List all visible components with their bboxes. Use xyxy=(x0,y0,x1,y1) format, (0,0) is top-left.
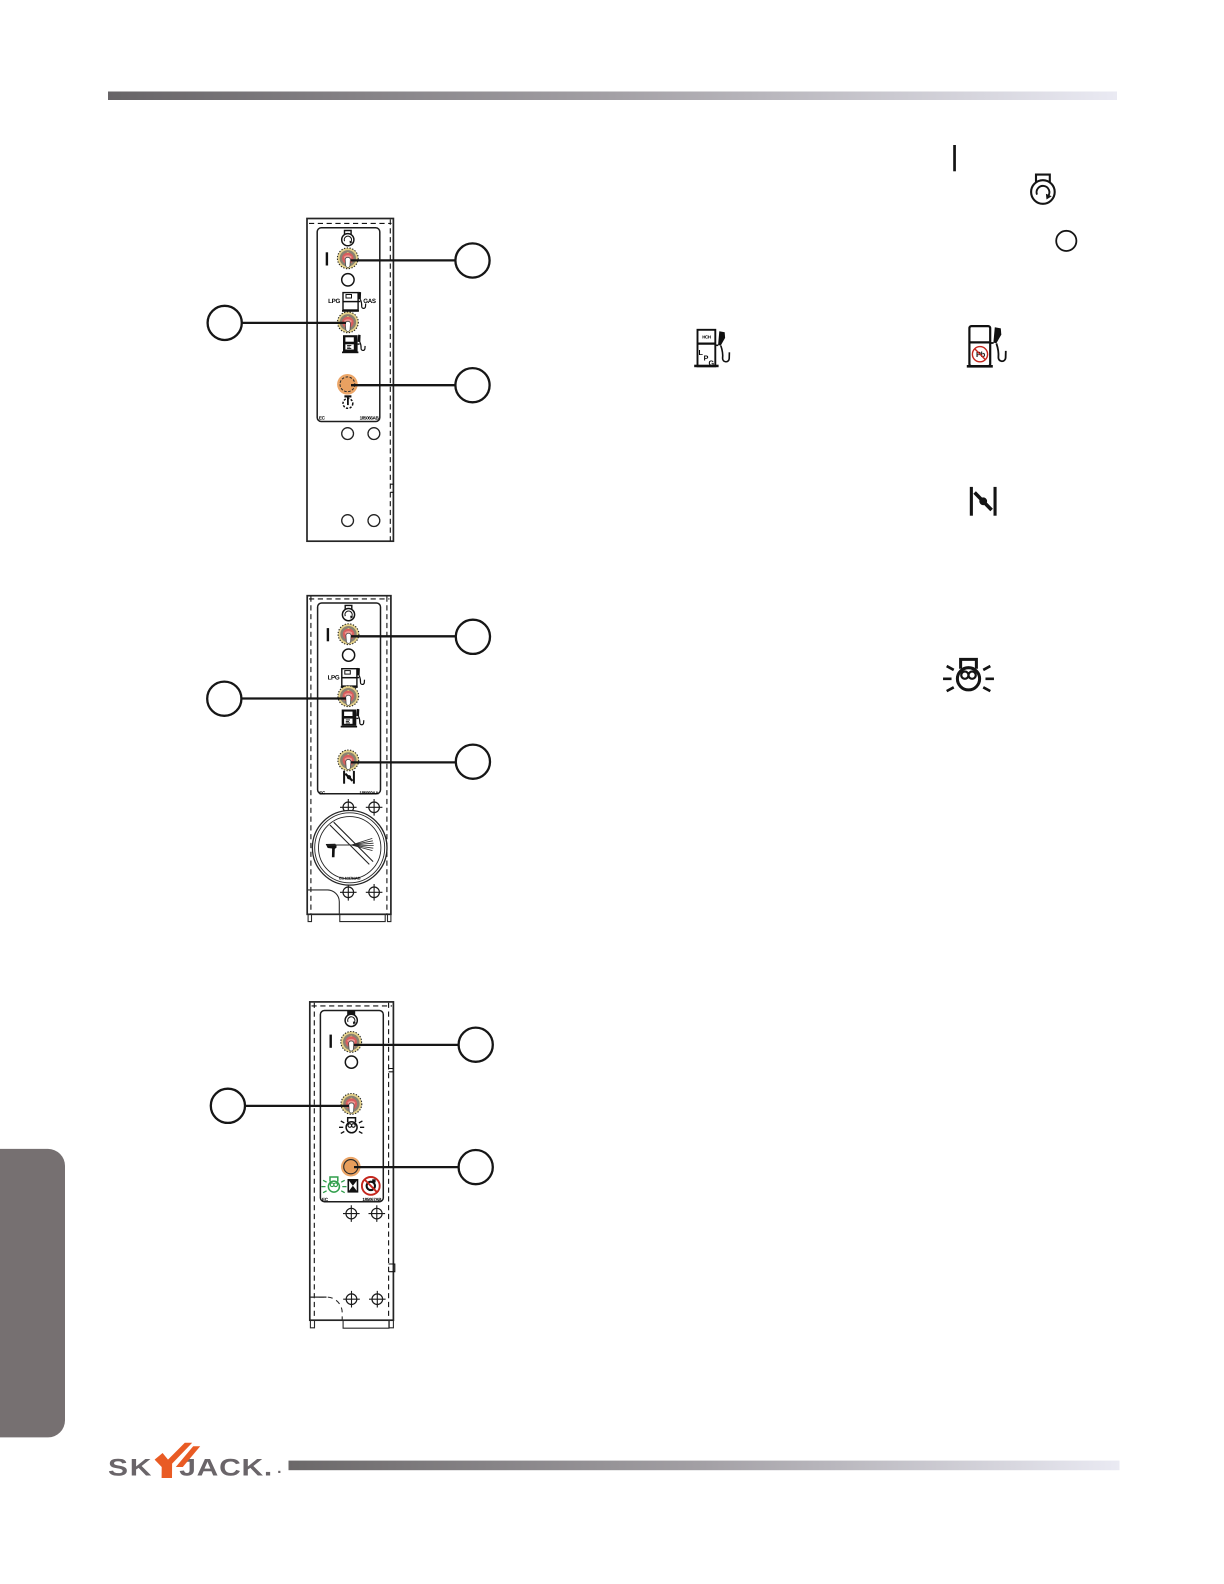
svg-text:GAS: GAS xyxy=(363,298,376,305)
svg-text:LPG: LPG xyxy=(328,298,340,305)
svg-text:EC 103763AB: EC 103763AB xyxy=(339,876,361,880)
svg-text:185069AA: 185069AA xyxy=(359,791,379,796)
svg-text:LPG: LPG xyxy=(328,674,340,681)
svg-text:185067AB: 185067AB xyxy=(362,1197,382,1202)
svg-text:JACK.: JACK. xyxy=(179,1454,273,1481)
svg-text:EC: EC xyxy=(319,416,326,421)
svg-text:EC: EC xyxy=(319,791,326,796)
svg-text:185066AB: 185066AB xyxy=(360,416,380,421)
svg-text:HCH: HCH xyxy=(702,335,711,340)
svg-text:SK: SK xyxy=(108,1454,153,1481)
svg-text:EC: EC xyxy=(322,1197,329,1202)
